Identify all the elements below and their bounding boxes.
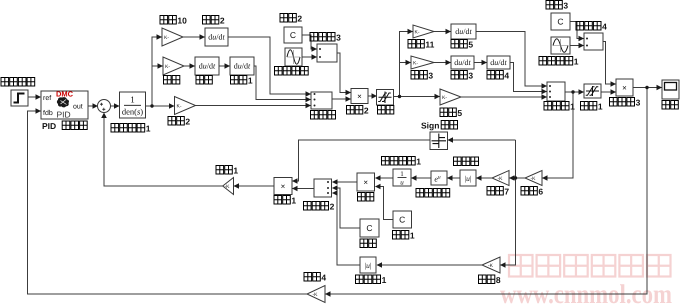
svg-text:K-: K- — [413, 60, 418, 66]
svg-text:1: 1 — [146, 124, 151, 134]
svg-text:C: C — [290, 30, 296, 40]
svg-text:8: 8 — [496, 275, 501, 285]
svg-text:du/dt: du/dt — [490, 58, 507, 67]
svg-text:|u|: |u| — [365, 261, 372, 270]
svg-text:-K: -K — [488, 263, 494, 269]
svg-text:1: 1 — [416, 157, 421, 167]
svg-text:4: 4 — [504, 71, 509, 81]
svg-text:×: × — [363, 178, 368, 187]
svg-text:2: 2 — [185, 117, 190, 127]
svg-text:5: 5 — [457, 108, 462, 118]
svg-text:×: × — [622, 84, 627, 93]
svg-text:K-: K- — [177, 103, 182, 109]
svg-text:7: 7 — [504, 187, 509, 197]
svg-text:C: C — [399, 215, 405, 225]
svg-text:-K: -K — [313, 292, 319, 298]
svg-text:×: × — [357, 92, 362, 101]
svg-text:1: 1 — [233, 166, 238, 176]
svg-text:Sign: Sign — [421, 121, 439, 131]
svg-text:K-: K- — [415, 29, 420, 35]
svg-text:-K: -K — [531, 176, 537, 182]
svg-text:1: 1 — [248, 76, 253, 86]
svg-text:3: 3 — [468, 71, 473, 81]
svg-text:du/dt: du/dt — [234, 62, 251, 71]
svg-text:den(s): den(s) — [122, 107, 143, 117]
svg-text:K-: K- — [442, 95, 447, 101]
svg-text:PID: PID — [42, 121, 56, 131]
svg-text:u: u — [400, 179, 404, 187]
svg-text:4: 4 — [602, 22, 607, 32]
svg-text:1: 1 — [130, 95, 135, 105]
svg-text:PID: PID — [57, 110, 71, 120]
svg-text:C: C — [366, 223, 372, 233]
svg-text:1: 1 — [291, 196, 296, 206]
svg-text:3: 3 — [428, 71, 433, 81]
svg-text:5: 5 — [468, 40, 473, 50]
svg-text:3: 3 — [336, 33, 341, 43]
svg-text:DMC: DMC — [56, 90, 74, 99]
svg-text:K-: K- — [164, 35, 169, 41]
svg-text:1: 1 — [570, 102, 575, 112]
svg-text:1: 1 — [382, 275, 387, 285]
svg-text:3: 3 — [636, 98, 641, 108]
svg-text:du/dt: du/dt — [454, 58, 471, 67]
svg-text:2: 2 — [297, 14, 302, 24]
svg-text:1: 1 — [410, 231, 415, 241]
svg-text:-K: -K — [498, 176, 504, 182]
svg-text:fdb: fdb — [43, 109, 53, 117]
svg-text:2: 2 — [364, 106, 369, 116]
svg-text:11: 11 — [425, 40, 434, 50]
svg-text:2: 2 — [330, 202, 335, 212]
svg-text:1: 1 — [598, 102, 603, 112]
svg-text:1: 1 — [400, 170, 404, 178]
svg-text:|u|: |u| — [465, 174, 472, 183]
svg-text:-K: -K — [225, 184, 231, 190]
svg-text:1: 1 — [574, 57, 579, 67]
svg-text:out: out — [73, 104, 83, 111]
svg-text:ref: ref — [43, 94, 51, 102]
svg-text:3: 3 — [563, 1, 568, 11]
svg-text:10: 10 — [177, 16, 187, 26]
svg-text:×: × — [281, 182, 286, 191]
svg-text:C: C — [557, 17, 563, 27]
svg-text:6: 6 — [538, 187, 543, 197]
svg-text:du/dt: du/dt — [455, 27, 472, 36]
svg-text:4: 4 — [321, 273, 326, 283]
svg-text:du/dt: du/dt — [208, 33, 225, 42]
svg-text:du/dt: du/dt — [199, 62, 216, 71]
svg-text:K-: K- — [165, 64, 170, 70]
svg-text:2: 2 — [220, 16, 225, 26]
